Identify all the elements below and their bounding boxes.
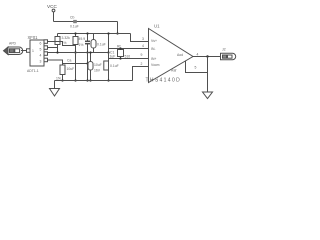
svg-text:4: 4 <box>40 54 42 58</box>
svg-text:1%: 1% <box>79 43 84 47</box>
svg-text:Ca: Ca <box>67 59 71 63</box>
svg-text:1uF: 1uF <box>110 55 116 59</box>
connector J2 <box>219 48 236 60</box>
svg-text:Cb: Cb <box>70 16 74 20</box>
wire output <box>193 56 219 58</box>
capacitor C3 <box>88 51 102 81</box>
resistor R2 <box>73 32 85 53</box>
svg-text:IN-: IN- <box>151 47 156 51</box>
wire lower node line <box>63 63 88 65</box>
wire VCC post <box>53 12 55 22</box>
ground G1 <box>50 81 60 97</box>
wire amp in line y48 <box>109 48 149 50</box>
svg-text:1%: 1% <box>56 77 61 81</box>
transformer XF01 <box>27 35 48 73</box>
wire ground bus <box>55 80 133 82</box>
svg-text:10uF: 10uF <box>67 67 75 71</box>
resistor R3 <box>117 45 130 60</box>
svg-text:VCC: VCC <box>47 4 58 9</box>
wire amp in line y58 <box>109 58 149 60</box>
svg-text:16V: 16V <box>94 69 101 73</box>
wire stack x108 <box>107 32 109 58</box>
wire pin1 hook <box>48 42 76 46</box>
svg-text:6: 6 <box>40 42 42 46</box>
svg-text:3: 3 <box>142 37 144 41</box>
wire node line top <box>48 52 109 54</box>
node output junction <box>206 55 208 57</box>
wire rail drop <box>117 22 119 34</box>
resistor R1 <box>55 34 70 53</box>
ground G2 <box>203 92 213 99</box>
wire pin4 hook <box>48 60 63 65</box>
wire pin2 hook <box>48 47 58 49</box>
svg-text:XF01: XF01 <box>28 35 39 40</box>
wire top rail <box>54 21 118 23</box>
svg-text:9: 9 <box>141 53 143 57</box>
svg-text:2: 2 <box>141 62 143 66</box>
wire mid rail <box>58 33 131 35</box>
svg-text:3: 3 <box>40 60 42 64</box>
svg-text:0.1uF: 0.1uF <box>97 43 106 47</box>
svg-text:4: 4 <box>197 53 199 57</box>
svg-text:10uF: 10uF <box>94 63 102 67</box>
svg-text:J2: J2 <box>222 48 226 52</box>
wire bus riser <box>133 67 149 81</box>
capacitor C2 <box>91 34 106 53</box>
svg-text:49.9: 49.9 <box>79 37 86 41</box>
node VCC terminal <box>52 9 55 12</box>
svg-text:IN+: IN+ <box>151 57 156 61</box>
svg-text:0.1uF: 0.1uF <box>110 64 119 68</box>
svg-text:U1: U1 <box>154 24 160 29</box>
svg-text:ADT1-1: ADT1-1 <box>27 69 39 73</box>
svg-text:0.1uF: 0.1uF <box>70 25 79 29</box>
connector J1 <box>4 42 27 55</box>
node VCC label <box>47 4 58 9</box>
svg-text:1: 1 <box>32 49 34 53</box>
svg-text:5: 5 <box>195 66 197 70</box>
svg-text:APD: APD <box>9 42 17 46</box>
wire output drop <box>207 57 209 93</box>
svg-text:Raf: Raf <box>171 69 176 73</box>
svg-text:Aod: Aod <box>177 53 183 57</box>
ferrite bead FB1 <box>70 16 79 29</box>
node dot <box>56 51 58 53</box>
svg-text:3.32k: 3.32k <box>62 36 71 40</box>
capacitor C1 <box>85 32 90 53</box>
svg-text:Rf: Rf <box>117 45 120 49</box>
wire stack x87 lower <box>86 53 88 82</box>
op-amp U1 <box>141 24 194 84</box>
svg-text:5: 5 <box>40 48 42 52</box>
svg-text:510: 510 <box>125 55 131 59</box>
resistor R4 <box>56 59 74 82</box>
svg-text:Vocm: Vocm <box>151 63 160 67</box>
wire stack x75 lower <box>74 53 76 82</box>
svg-text:THS4140D: THS4140D <box>146 78 182 84</box>
wire drop to amp pin1 <box>131 34 149 42</box>
svg-text:4: 4 <box>142 44 144 48</box>
capacitor C4 <box>104 51 119 82</box>
svg-text:Vs+: Vs+ <box>151 39 157 43</box>
wire feedback <box>171 53 208 73</box>
